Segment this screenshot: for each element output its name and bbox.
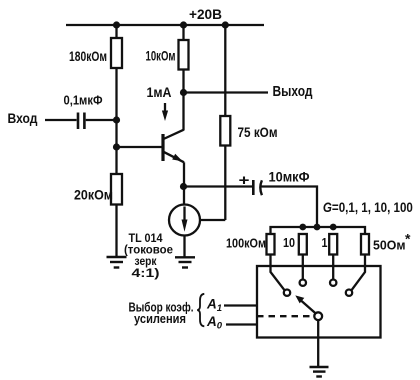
resistor 50 Om: [361, 234, 369, 255]
wire: cap to junction: [86, 119, 117, 121]
svg-text:1: 1: [322, 236, 328, 250]
capacitor 10uF plus plate: [252, 180, 255, 195]
switch contact 4: [346, 290, 352, 296]
arrow inside current source: [183, 207, 185, 223]
svg-text:4:1): 4:1): [132, 266, 160, 280]
resistor 180kOm: [111, 38, 122, 68]
wire: elbow to current mirror right side: [200, 219, 225, 221]
resistor 100kOm: [267, 234, 275, 255]
resistor 1: [329, 234, 337, 255]
brace: [197, 294, 204, 327]
wire: 10k bottom to collector node: [182, 70, 184, 131]
switch wiper arrow: [301, 301, 316, 314]
wire: input lead: [45, 119, 77, 121]
wire: R2 bottom into box: [302, 255, 304, 280]
svg-text:A0: A0: [206, 314, 223, 332]
wire: A0 control: [226, 323, 257, 325]
node: collector / output: [180, 89, 187, 96]
node: bus R2: [299, 224, 306, 231]
svg-text:*: *: [405, 231, 411, 247]
current mirror source circle: [169, 205, 200, 236]
capacitor 10uF curved plate: [260, 180, 262, 195]
ground: under current source: [175, 257, 195, 267]
svg-text:50Ом: 50Ом: [373, 239, 406, 253]
svg-text:20кОм: 20кОм: [74, 188, 113, 203]
wire: rail to R 75k: [224, 25, 226, 116]
switch pole circle: [314, 312, 322, 320]
svg-text:180кОм: 180кОм: [69, 49, 107, 64]
svg-text:10мкФ: 10мкФ: [269, 169, 310, 185]
ground: under switch box: [310, 367, 329, 377]
wire: R4 bottom into box: [352, 255, 366, 291]
svg-text:100кОм: 100кОм: [226, 237, 266, 251]
capacitor 0.1uF plates: [78, 113, 84, 130]
wire: emitter vertical: [183, 162, 185, 186]
wire: output lead: [184, 91, 269, 93]
switch contact 3: [330, 280, 336, 286]
svg-text:1мА: 1мА: [147, 85, 172, 100]
svg-text:0,1мкФ: 0,1мкФ: [64, 93, 103, 108]
svg-text:A1: A1: [206, 297, 222, 315]
wire: cap to G bus: [262, 187, 318, 228]
svg-text:Вход: Вход: [8, 111, 38, 126]
wire: emitter to cap: [184, 185, 253, 187]
wire: +20V top rail: [66, 24, 264, 26]
wire: emitter diagonal with arrow: [164, 152, 185, 163]
svg-text:+20В: +20В: [189, 6, 222, 22]
svg-text:G=0,1, 1, 10, 100: G=0,1, 1, 10, 100: [323, 200, 413, 215]
wire: gain resistor bus: [271, 227, 366, 234]
resistor 10: [299, 234, 307, 255]
svg-text:усиления: усиления: [134, 312, 186, 326]
node: base junction: [113, 143, 120, 150]
node: rail to 180k junction: [113, 21, 120, 28]
node: bus R3: [330, 224, 337, 231]
wire: emitter node to current source: [183, 187, 185, 206]
wire: A1 control: [224, 304, 257, 306]
wire: rail to R 10k: [182, 25, 184, 40]
svg-text:Выход: Выход: [273, 84, 313, 100]
wire: R3 bottom into box: [332, 255, 334, 280]
node: bus cap feed: [314, 224, 321, 231]
dashed control line: [257, 315, 314, 317]
switch box: [257, 266, 381, 338]
wire: current source to ground: [183, 236, 185, 257]
svg-text:+: +: [239, 172, 250, 189]
node: rail to 10k junction: [180, 21, 187, 28]
wire: 180k bottom down left vertical: [115, 68, 117, 174]
ground: under 20k: [107, 257, 127, 268]
svg-text:10кОм: 10кОм: [146, 49, 176, 64]
switch contact 2: [300, 280, 306, 286]
node: input junction: [113, 116, 120, 123]
switch contact 1: [284, 290, 290, 296]
wire: R1 bottom into box: [271, 255, 285, 291]
node: rail to 75k junction: [222, 21, 229, 28]
svg-text:75 кОм: 75 кОм: [238, 125, 278, 140]
arrow: 1mA current annotation: [164, 103, 166, 114]
wire: base: [117, 146, 164, 148]
wire: collector diagonal: [164, 130, 184, 139]
wire: 75k bottom down: [224, 146, 226, 221]
resistor 10kOm: [179, 40, 189, 70]
wire: pole to ground: [317, 320, 319, 366]
resistor 75kOm: [220, 116, 230, 146]
resistor 20kOm: [111, 174, 122, 205]
wire: rail to R 180k: [115, 25, 117, 38]
node: emitter junction: [180, 183, 187, 190]
transistor Q1 base bar: [161, 134, 164, 161]
wire: 20k bottom to ground: [115, 205, 117, 257]
svg-text:10: 10: [283, 236, 295, 250]
